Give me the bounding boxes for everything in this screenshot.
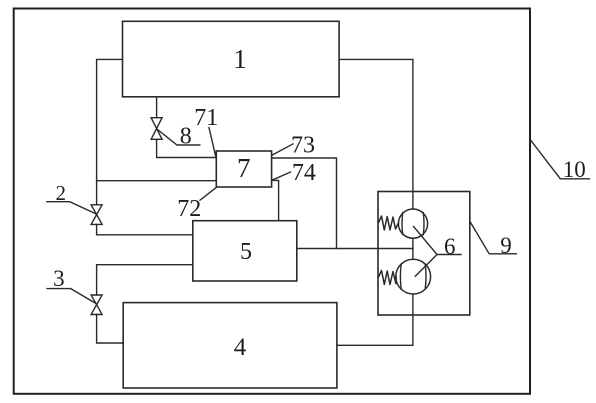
svg-text:3: 3 <box>53 266 65 291</box>
spring of compressor 6a <box>379 216 399 230</box>
leader of label 3 <box>47 289 97 304</box>
leader of label 6 <box>414 227 462 277</box>
svg-text:7: 7 <box>237 153 251 183</box>
wire box1 left to rail <box>97 59 123 204</box>
wire valve8 to box7 left <box>157 139 217 157</box>
wire box7 right to junction <box>272 158 337 249</box>
svg-text:73: 73 <box>291 132 315 158</box>
box 9 <box>378 192 470 316</box>
wire box1 right to compressor line <box>339 59 413 209</box>
wire valve3 to box4 left <box>97 315 124 344</box>
box 5 <box>193 221 297 281</box>
compressor 6a inner chords <box>402 213 424 235</box>
box 4 <box>123 303 337 388</box>
leader of label 8 <box>158 130 200 146</box>
wire valve2 to box5 left <box>97 224 193 234</box>
wire between compressors <box>412 238 414 259</box>
leader of label 10 <box>530 140 589 179</box>
spring of compressor 6b <box>379 271 397 285</box>
leader of label 9 <box>470 222 516 254</box>
valve 8 <box>151 118 162 140</box>
valve 2 <box>91 205 102 225</box>
wire box1 bottom to valve8 <box>156 97 158 118</box>
svg-text:5: 5 <box>240 239 252 265</box>
compressor 6b circle <box>396 259 431 294</box>
valve 3 <box>91 295 102 315</box>
leader of label 74 <box>272 172 291 180</box>
box 7 <box>216 151 271 187</box>
wire box7 outlet stub to box5 top <box>272 180 279 220</box>
box 1 <box>123 21 340 97</box>
svg-text:4: 4 <box>234 334 247 361</box>
svg-text:71: 71 <box>194 105 218 131</box>
wire box5 left to valve3 <box>97 265 193 295</box>
svg-text:72: 72 <box>177 196 201 222</box>
svg-text:74: 74 <box>292 160 316 186</box>
leader of label 73 <box>272 144 293 155</box>
wire rail to box7 left <box>97 180 217 182</box>
svg-text:1: 1 <box>233 44 247 74</box>
leader of label 72 <box>200 187 216 200</box>
leader of label 2 <box>47 202 97 214</box>
compressor 6b inner chords <box>400 264 426 289</box>
leader of label 71 <box>209 128 216 157</box>
wire box5 right to box9 <box>297 248 413 250</box>
compressor 6a circle <box>398 209 427 238</box>
wire compressor line to box4 right <box>337 294 413 345</box>
